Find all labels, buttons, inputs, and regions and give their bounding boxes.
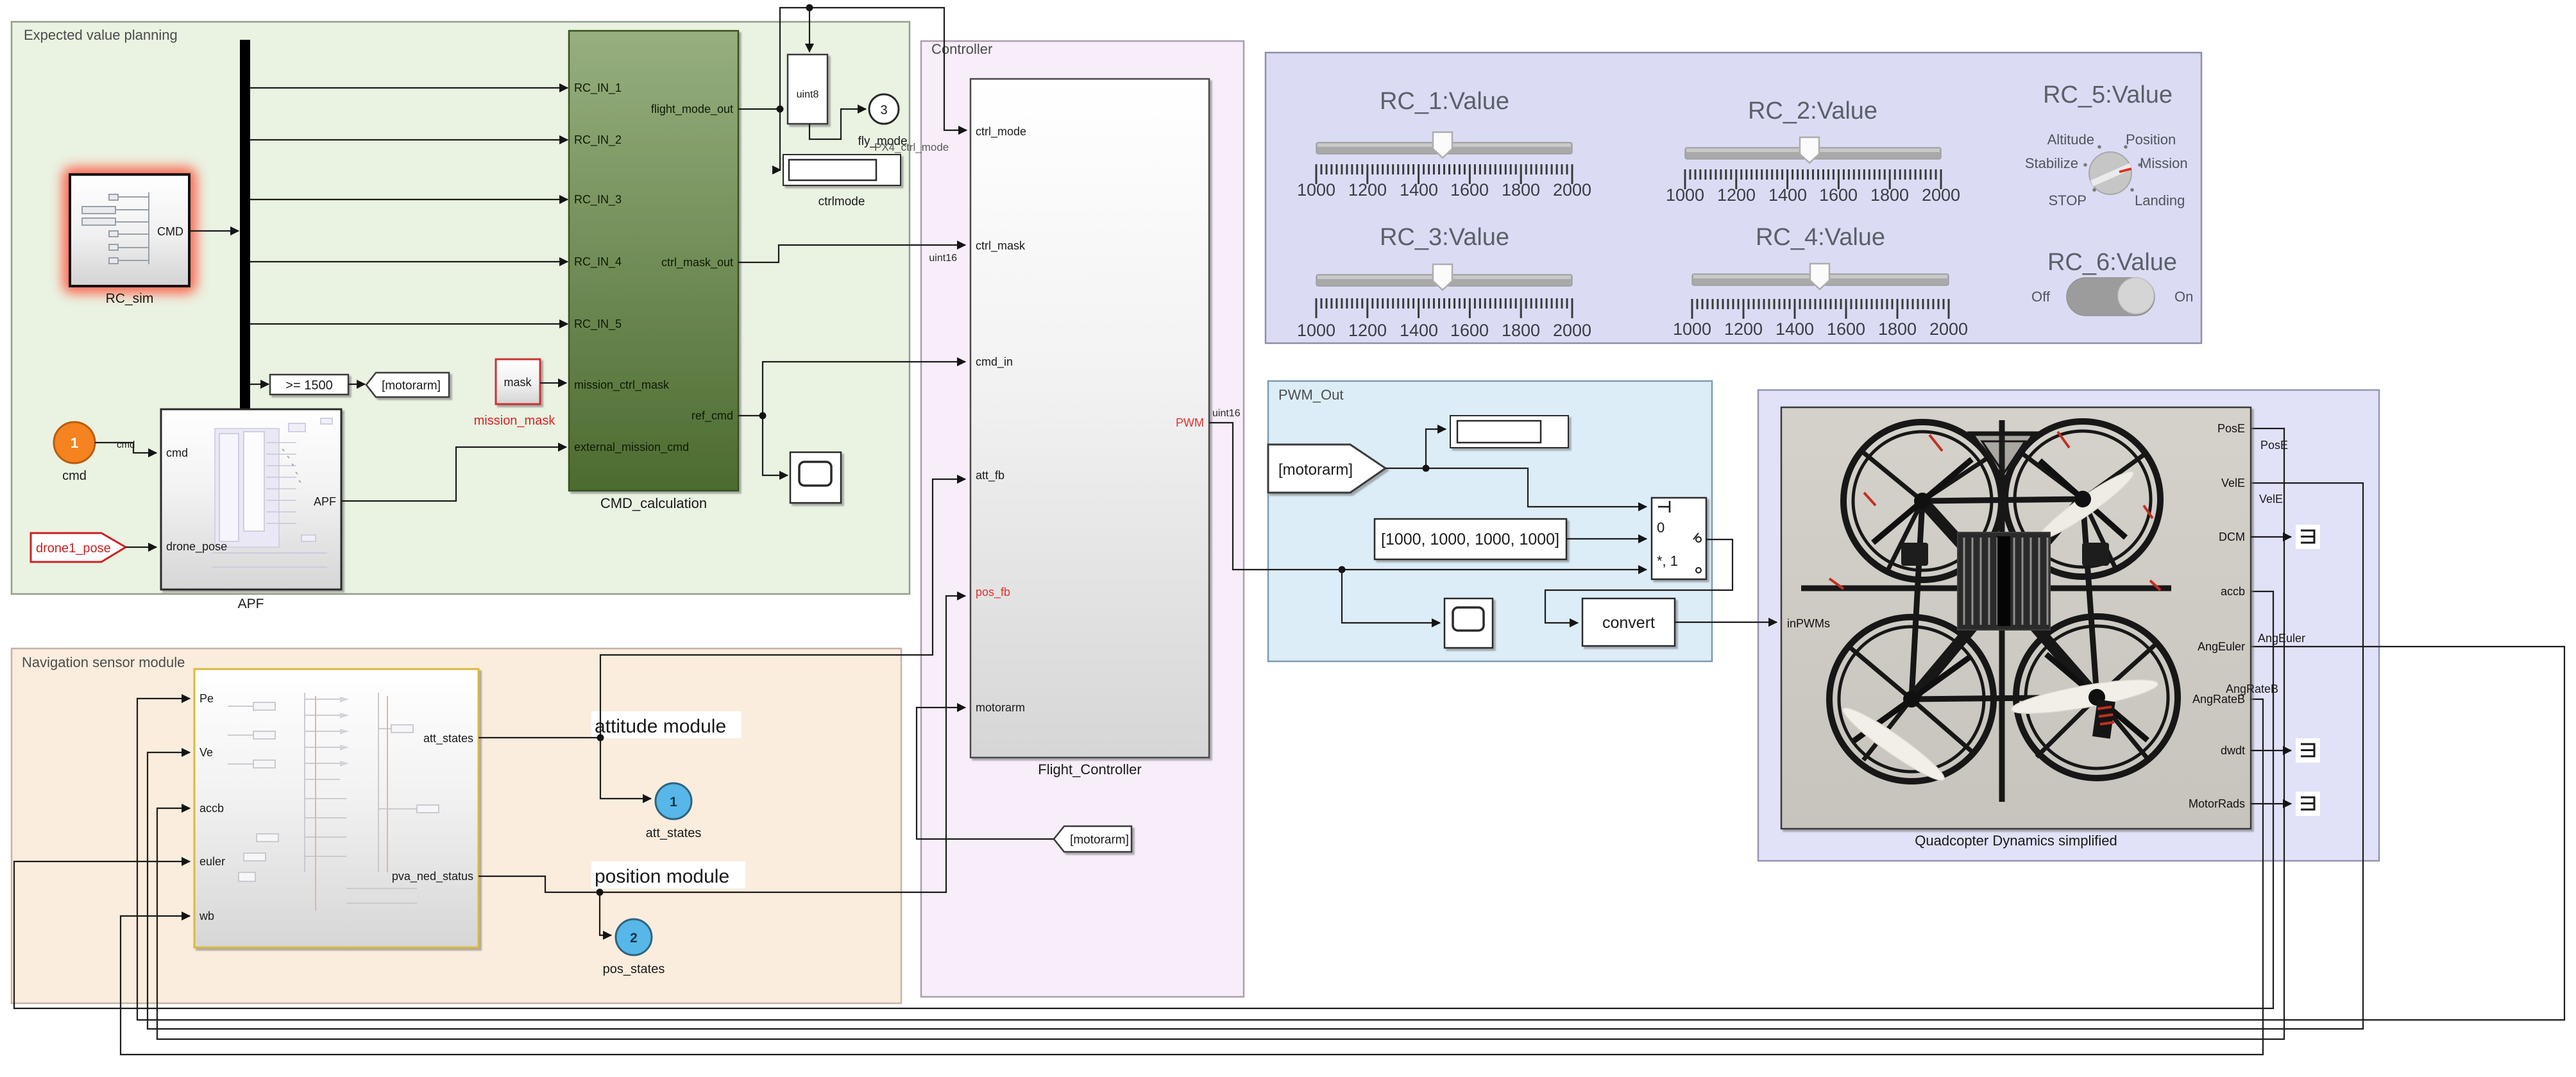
from tag motorarm (controller) (1054, 826, 1131, 852)
converter uint8 (788, 55, 827, 124)
svg-text:RC_IN_1: RC_IN_1 (574, 81, 622, 95)
wire bus to RC_IN_4 (250, 261, 568, 262)
svg-text:>= 1500: >= 1500 (285, 378, 332, 393)
wire MotorRads to terminator (2251, 803, 2291, 804)
svg-text:2000: 2000 (1553, 321, 1591, 340)
svg-text:1600: 1600 (1827, 319, 1865, 339)
svg-text:VelE: VelE (2259, 493, 2283, 505)
svg-text:1200: 1200 (1724, 319, 1763, 339)
svg-text:[motorarm]: [motorarm] (1278, 461, 1353, 479)
subsystem CMD_calculation (569, 31, 738, 511)
svg-text:*, 1: *, 1 (1657, 553, 1678, 569)
wire feedback AngEuler-line (137, 647, 2564, 1020)
control RC_2 (1666, 98, 1960, 205)
subsystem APF (161, 409, 341, 611)
scope block (expected value) (790, 452, 841, 503)
wire constant to switch (1566, 538, 1647, 539)
svg-text:DCM: DCM (2219, 530, 2245, 543)
svg-text:1600: 1600 (1450, 180, 1489, 199)
svg-text:2000: 2000 (1553, 180, 1591, 199)
svg-text:RC_3:Value: RC_3:Value (1380, 224, 1509, 251)
wire motorarm tag to port (917, 708, 1054, 839)
svg-text:Pe: Pe (199, 692, 214, 705)
bus bar (240, 40, 250, 409)
control RC_5 knob (2025, 81, 2188, 208)
wire att_states net (479, 479, 965, 799)
subsystem navigation (yellow) (194, 669, 479, 947)
wire motorarm to display and switch (1385, 429, 1647, 507)
svg-text:drone1_pose: drone1_pose (36, 541, 111, 555)
svg-text:1400: 1400 (1768, 185, 1807, 205)
svg-text:1800: 1800 (1502, 321, 1540, 340)
svg-text:1200: 1200 (1348, 321, 1387, 340)
switch block (1652, 498, 1706, 579)
svg-text:1600: 1600 (1819, 185, 1858, 205)
svg-text:MotorRads: MotorRads (2189, 797, 2245, 810)
wire feedback PosE-line (157, 428, 2284, 1039)
svg-text:1800: 1800 (1502, 180, 1540, 199)
svg-text:mask: mask (504, 376, 532, 389)
svg-text:2000: 2000 (1929, 319, 1968, 339)
terminator MotorRads (2296, 792, 2320, 816)
svg-text:ctrl_mode: ctrl_mode (976, 125, 1026, 139)
svg-text:uint8: uint8 (797, 89, 819, 100)
wire feedback VelE-line (148, 483, 2363, 1029)
scope (PWM_Out) (1445, 598, 1493, 648)
from tag motorarm (PWM_Out) (1268, 445, 1385, 493)
wire bus to RC_IN_5 (250, 323, 568, 325)
svg-text:[motorarm]: [motorarm] (382, 379, 441, 393)
svg-text:ref_cmd: ref_cmd (691, 409, 733, 423)
svg-text:inPWMs: inPWMs (1787, 617, 1830, 630)
wire dwdt to terminator (2251, 750, 2291, 751)
svg-text:cmd: cmd (166, 446, 188, 459)
svg-text:Off: Off (2031, 289, 2051, 305)
svg-text:Mission: Mission (2140, 155, 2188, 171)
svg-text:uint16: uint16 (1212, 408, 1241, 419)
svg-text:1000: 1000 (1673, 319, 1711, 339)
svg-text:convert: convert (1602, 614, 1655, 632)
svg-text:APF: APF (314, 495, 336, 508)
wire flight_mode_out net (738, 4, 967, 171)
svg-text:2000: 2000 (1922, 185, 1960, 205)
svg-text:wb: wb (199, 910, 214, 922)
outport pos_states (603, 919, 665, 976)
svg-text:RC_4:Value: RC_4:Value (1756, 224, 1885, 251)
svg-text:RC_IN_5: RC_IN_5 (574, 318, 622, 331)
svg-text:cmd: cmd (117, 439, 135, 450)
svg-text:RC_IN_4: RC_IN_4 (574, 255, 622, 269)
wire pva_ned_status net (479, 596, 965, 935)
block convert (1582, 598, 1675, 646)
svg-text:Quadcopter Dynamics simplified: Quadcopter Dynamics simplified (1915, 833, 2117, 849)
region Quadcopter Dynamics (1758, 390, 2379, 861)
svg-text:att_states: att_states (423, 732, 473, 745)
control RC_4 (1673, 224, 1968, 339)
svg-text:1400: 1400 (1775, 319, 1814, 339)
svg-text:APF: APF (238, 597, 264, 611)
svg-text:pos_fb: pos_fb (976, 586, 1010, 599)
svg-text:1200: 1200 (1348, 180, 1387, 199)
wire APF to external_mission_cmd (341, 447, 566, 501)
svg-text:RC_2:Value: RC_2:Value (1748, 98, 1877, 124)
svg-text:CMD: CMD (157, 225, 183, 238)
svg-text:1: 1 (71, 435, 78, 451)
svg-text:cmd_in: cmd_in (976, 355, 1013, 369)
svg-text:pos_states: pos_states (603, 962, 665, 976)
wire bus to compare block (250, 384, 269, 385)
svg-text:2: 2 (630, 931, 638, 946)
subsystem RC_sim (70, 174, 189, 306)
svg-text:mission_ctrl_mask: mission_ctrl_mask (574, 378, 670, 392)
svg-text:dwdt: dwdt (2221, 744, 2245, 757)
svg-text:PosE: PosE (2217, 422, 2245, 435)
wire PWM to switch (1209, 423, 1647, 623)
svg-text:[motorarm]: [motorarm] (1070, 833, 1129, 847)
svg-text:RC_5:Value: RC_5:Value (2043, 81, 2173, 108)
block mission_mask (474, 359, 556, 428)
svg-text:1800: 1800 (1878, 319, 1917, 339)
terminator DCM (2296, 525, 2320, 549)
wire bus to RC_IN_3 (250, 199, 568, 200)
svg-text:PosE: PosE (2260, 439, 2288, 452)
svg-text:RC_IN_2: RC_IN_2 (574, 133, 622, 147)
svg-text:ctrl_mask_out: ctrl_mask_out (661, 256, 733, 269)
display ctrlmode (783, 155, 901, 208)
wire uint8 to fly_mode (809, 109, 866, 139)
wire feedback AngRateB-line (121, 699, 2263, 1055)
terminator dwdt (2296, 738, 2320, 763)
svg-text:att_fb: att_fb (976, 469, 1004, 482)
subsystem Flight_Controller (970, 79, 1209, 777)
svg-text:PWM: PWM (1176, 416, 1204, 429)
region RC values panel (1266, 53, 2201, 343)
svg-text:AngRateB: AngRateB (2226, 683, 2278, 695)
svg-text:RC_6:Value: RC_6:Value (2047, 249, 2177, 276)
from tag drone1_pose (31, 533, 126, 562)
wire ref_cmd to cmd_in (738, 362, 965, 475)
svg-text:1000: 1000 (1297, 180, 1335, 199)
outport fly_mode (858, 94, 907, 148)
inport cmd (54, 422, 95, 483)
svg-text:1000: 1000 (1297, 321, 1335, 340)
svg-text:3: 3 (880, 103, 887, 117)
svg-text:1000: 1000 (1666, 185, 1704, 205)
subsystem RC_sim glow (62, 167, 197, 294)
svg-text:Controller: Controller (931, 41, 992, 57)
svg-text:AngEuler: AngEuler (2198, 640, 2245, 653)
label position module (591, 861, 745, 888)
svg-text:Landing: Landing (2135, 192, 2185, 208)
svg-text:cmd: cmd (62, 469, 87, 483)
svg-text:external_mission_cmd: external_mission_cmd (574, 441, 689, 454)
svg-text:ctrlmode: ctrlmode (818, 195, 865, 208)
svg-text:Expected value planning: Expected value planning (24, 27, 178, 43)
svg-text:att_states: att_states (646, 826, 702, 840)
control RC_1 (1297, 88, 1591, 199)
svg-text:AngEuler: AngEuler (2258, 632, 2305, 645)
svg-text:0: 0 (1657, 520, 1665, 536)
wire ctrl_mask_out to ctrl_mask (738, 245, 965, 262)
svg-text:1600: 1600 (1450, 321, 1489, 340)
compare block >= 1500 (270, 375, 348, 394)
control RC_6 toggle (2031, 249, 2193, 316)
wire compare to goto motorarm (348, 384, 365, 385)
goto tag motorarm (366, 373, 449, 397)
region Controller (921, 41, 1244, 997)
svg-text:STOP: STOP (2048, 192, 2087, 208)
svg-text:Ve: Ve (199, 746, 213, 759)
outport att_states (646, 783, 702, 840)
svg-text:accb: accb (199, 802, 224, 815)
svg-text:On: On (2174, 289, 2193, 305)
svg-text:accb: accb (2221, 585, 2245, 598)
svg-text:Stabilize: Stabilize (2025, 155, 2078, 171)
svg-text:RC_IN_3: RC_IN_3 (574, 193, 622, 207)
svg-text:VelE: VelE (2221, 477, 2245, 489)
svg-text:drone_pose: drone_pose (166, 540, 227, 554)
wire DCM to terminator (2251, 536, 2291, 538)
wire drone1_pose to APF (126, 547, 157, 548)
control RC_3 (1297, 224, 1591, 340)
region Expected value planning (12, 22, 910, 594)
svg-text:1400: 1400 (1400, 180, 1438, 199)
svg-text:RC_1:Value: RC_1:Value (1380, 88, 1509, 115)
region Navigation sensor module (12, 649, 901, 1003)
svg-text:position module: position module (595, 866, 729, 887)
svg-text:ctrl_mask: ctrl_mask (976, 239, 1026, 253)
svg-text:Navigation sensor module: Navigation sensor module (22, 654, 185, 670)
label attitude module (591, 711, 741, 738)
wire bus to RC_IN_2 (250, 139, 568, 140)
wire feedback accb-line (14, 591, 2273, 1008)
svg-text:1800: 1800 (1870, 185, 1909, 205)
svg-text:pva_ned_status: pva_ned_status (392, 870, 473, 883)
svg-text:Flight_Controller: Flight_Controller (1038, 761, 1141, 777)
wire bus to RC_IN_1 (250, 87, 568, 89)
subsystem Quadcopter Dynamics simplified (1781, 407, 2251, 849)
region PWM_Out (1268, 381, 1712, 661)
svg-text:flight_mode_out: flight_mode_out (651, 103, 733, 116)
svg-text:PWM_Out: PWM_Out (1278, 387, 1343, 403)
svg-text:mission_mask: mission_mask (474, 414, 556, 428)
svg-text:1400: 1400 (1400, 321, 1438, 340)
wire convert to inPWMs (1675, 622, 1777, 623)
svg-text:PX4_ctrl_mode: PX4_ctrl_mode (874, 141, 949, 153)
svg-text:1: 1 (670, 795, 677, 810)
constant [1000, 1000, 1000, 1000] (1375, 519, 1566, 559)
svg-text:uint16: uint16 (929, 253, 957, 264)
wire cmd to APF (95, 443, 157, 453)
wire switch to convert (1545, 539, 1733, 623)
display block (PWM_Out) (1450, 416, 1568, 448)
svg-text:attitude module: attitude module (595, 716, 726, 737)
svg-text:CMD_calculation: CMD_calculation (600, 495, 707, 511)
svg-text:[1000, 1000, 1000, 1000]: [1000, 1000, 1000, 1000] (1381, 530, 1559, 548)
svg-text:motorarm: motorarm (976, 701, 1025, 714)
svg-text:RC_sim: RC_sim (106, 291, 154, 306)
svg-text:Position: Position (2126, 131, 2176, 148)
svg-text:1200: 1200 (1717, 185, 1756, 205)
wire mask to mission_ctrl_mask (540, 382, 566, 384)
svg-text:Altitude: Altitude (2047, 131, 2094, 148)
svg-text:euler: euler (199, 855, 225, 868)
wire RC_sim CMD to bus (189, 230, 239, 232)
